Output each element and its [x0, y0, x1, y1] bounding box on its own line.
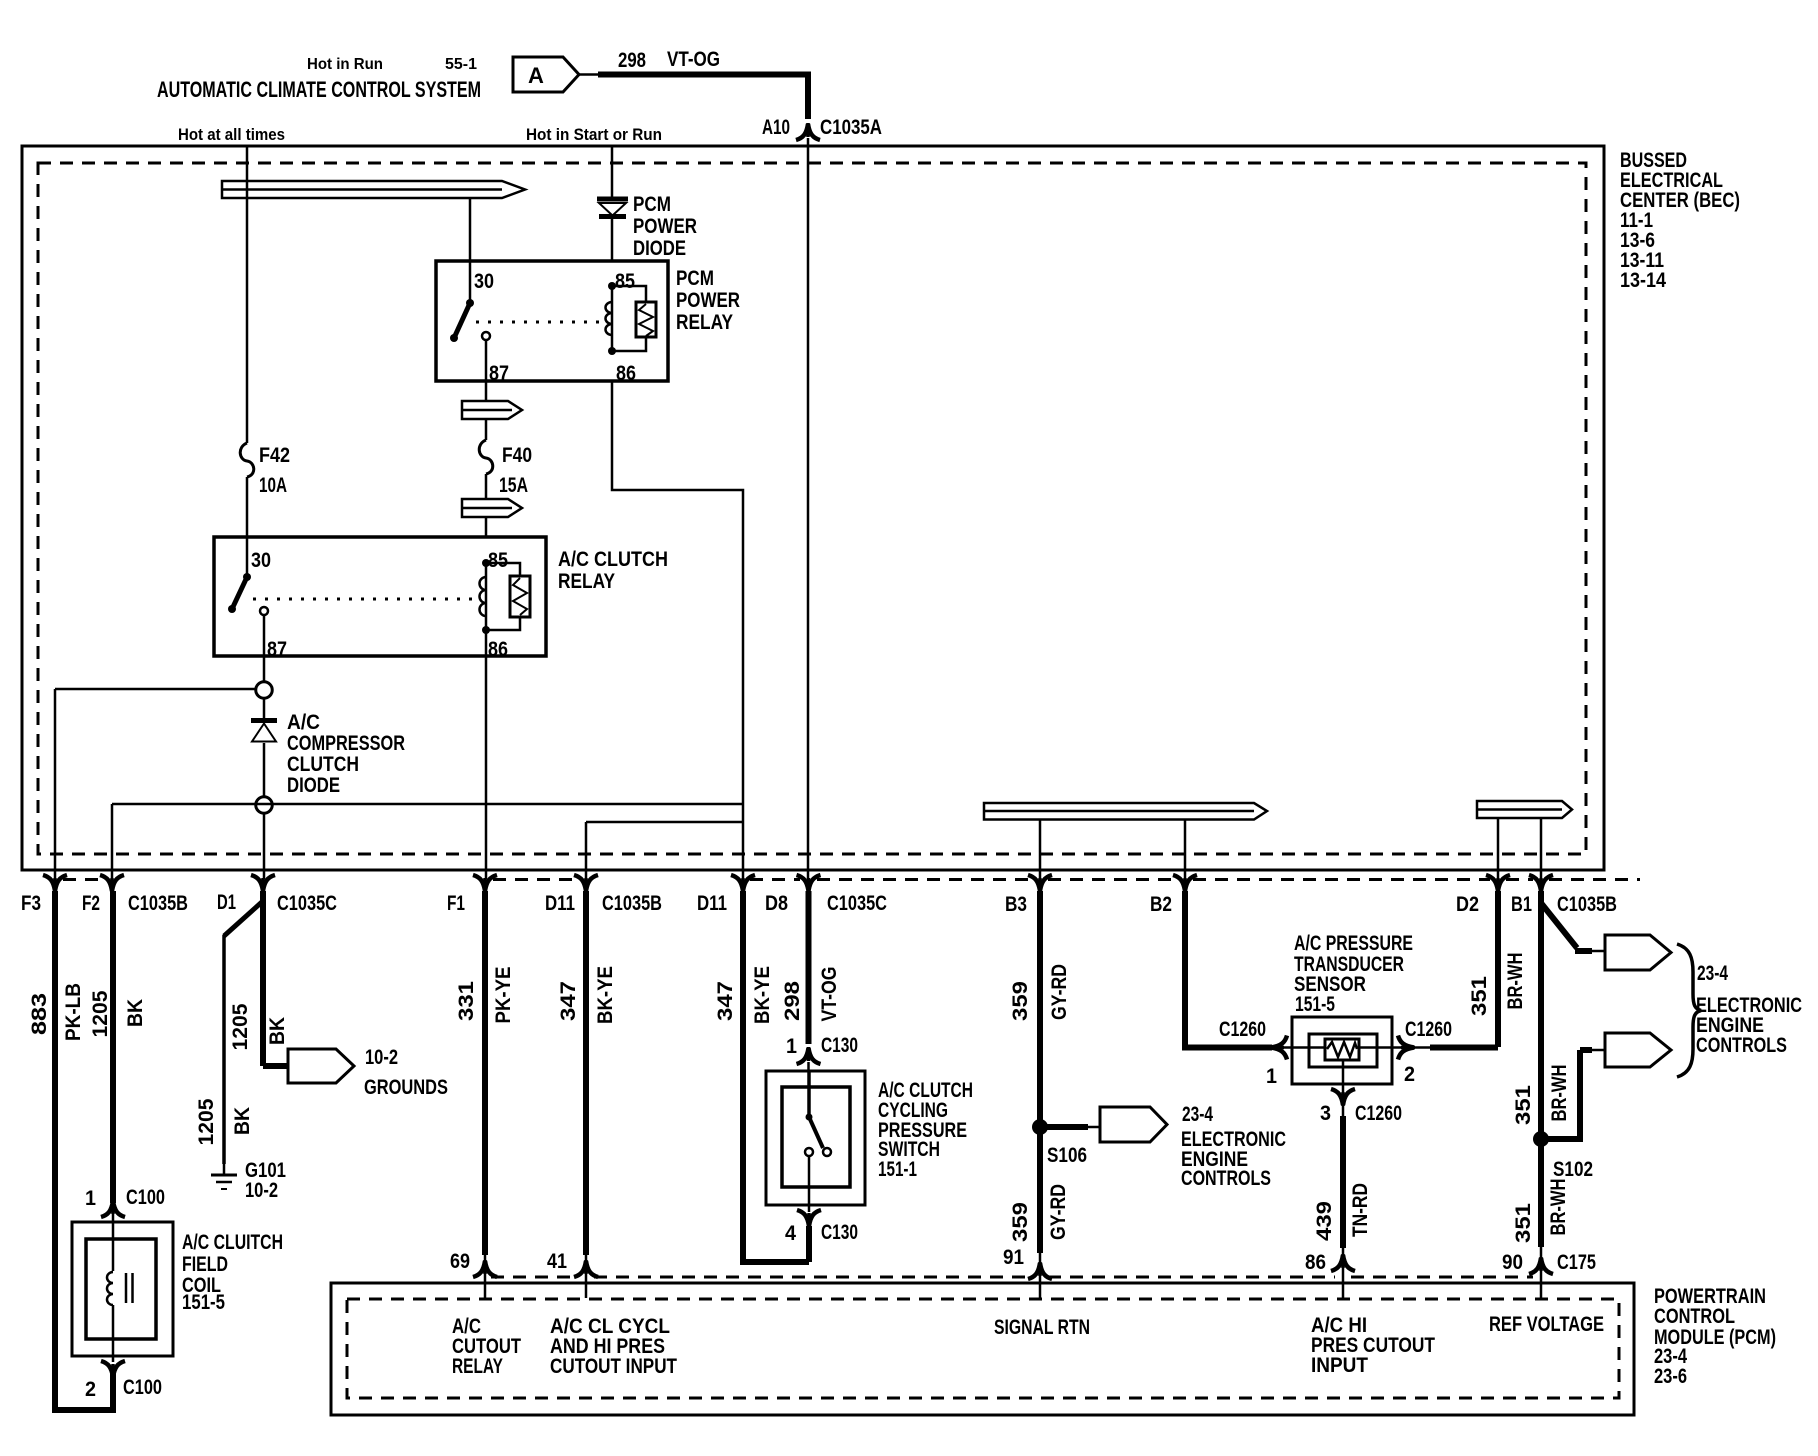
svg-text:87: 87: [489, 362, 509, 385]
svg-text:SIGNAL RTN: SIGNAL RTN: [994, 1316, 1090, 1339]
svg-text:298: 298: [618, 49, 646, 72]
svg-text:23-6: 23-6: [1654, 1365, 1687, 1388]
svg-text:C175: C175: [1557, 1251, 1596, 1274]
svg-text:1205: 1205: [89, 990, 112, 1037]
svg-text:439: 439: [1313, 1201, 1336, 1241]
svg-text:D1: D1: [217, 891, 236, 914]
svg-text:3: 3: [1320, 1102, 1331, 1125]
svg-text:347: 347: [714, 981, 737, 1021]
svg-text:BR-WH: BR-WH: [1504, 953, 1527, 1010]
svg-text:POWER: POWER: [676, 289, 740, 312]
svg-text:C100: C100: [126, 1186, 165, 1209]
svg-text:30: 30: [474, 270, 494, 293]
svg-text:A: A: [528, 63, 544, 88]
svg-text:151-5: 151-5: [182, 1291, 225, 1314]
svg-text:D8: D8: [765, 892, 788, 915]
svg-text:FIELD: FIELD: [182, 1253, 228, 1276]
svg-text:91: 91: [1003, 1246, 1024, 1269]
svg-text:2: 2: [1404, 1063, 1415, 1086]
svg-text:87: 87: [267, 638, 287, 661]
svg-text:359: 359: [1009, 1202, 1032, 1242]
svg-text:1: 1: [1266, 1065, 1277, 1088]
svg-text:10A: 10A: [259, 474, 287, 497]
svg-text:69: 69: [450, 1250, 470, 1273]
svg-text:BK-YE: BK-YE: [751, 966, 774, 1024]
svg-text:298: 298: [781, 981, 804, 1021]
svg-text:F1: F1: [447, 892, 465, 915]
svg-text:GY-RD: GY-RD: [1047, 1184, 1070, 1240]
svg-text:B3: B3: [1005, 893, 1027, 916]
svg-text:C1260: C1260: [1355, 1102, 1402, 1125]
svg-text:55-1: 55-1: [445, 56, 477, 73]
svg-text:30: 30: [251, 549, 271, 572]
svg-text:C1035B: C1035B: [602, 892, 662, 915]
svg-text:359: 359: [1009, 981, 1032, 1021]
svg-text:C1035B: C1035B: [1557, 893, 1617, 916]
svg-text:PK-YE: PK-YE: [492, 967, 515, 1024]
svg-text:C1035C: C1035C: [277, 892, 337, 915]
svg-text:BK: BK: [124, 999, 147, 1027]
svg-text:D2: D2: [1456, 893, 1479, 916]
svg-text:RELAY: RELAY: [558, 570, 615, 593]
svg-text:A/C CLUTCH: A/C CLUTCH: [558, 548, 668, 571]
svg-text:VT-OG: VT-OG: [667, 48, 720, 71]
svg-text:C1035A: C1035A: [820, 116, 882, 139]
svg-text:CONTROLS: CONTROLS: [1181, 1167, 1271, 1190]
svg-text:REF VOLTAGE: REF VOLTAGE: [1489, 1313, 1604, 1336]
svg-text:F3: F3: [21, 892, 41, 915]
svg-text:RELAY: RELAY: [676, 311, 733, 334]
svg-text:15A: 15A: [499, 474, 528, 497]
svg-text:VT-OG: VT-OG: [818, 967, 841, 1022]
svg-text:POWER: POWER: [633, 215, 697, 238]
svg-text:1205: 1205: [195, 1098, 218, 1145]
svg-text:883: 883: [28, 993, 51, 1035]
svg-text:CLUTCH: CLUTCH: [287, 753, 359, 776]
svg-text:GROUNDS: GROUNDS: [364, 1076, 448, 1099]
svg-text:C100: C100: [123, 1376, 162, 1399]
svg-text:41: 41: [547, 1250, 567, 1273]
svg-text:BK-YE: BK-YE: [594, 966, 617, 1024]
svg-text:151-1: 151-1: [878, 1158, 917, 1181]
svg-text:A/C CLUITCH: A/C CLUITCH: [182, 1231, 283, 1254]
svg-text:F40: F40: [502, 444, 532, 467]
svg-text:151-5: 151-5: [1295, 993, 1335, 1016]
svg-text:347: 347: [557, 981, 580, 1021]
svg-text:INPUT: INPUT: [1311, 1354, 1368, 1377]
svg-text:Hot in Start or Run: Hot in Start or Run: [526, 125, 662, 144]
svg-text:S106: S106: [1047, 1144, 1087, 1167]
svg-text:86: 86: [1305, 1251, 1326, 1274]
svg-text:331: 331: [455, 981, 478, 1021]
svg-text:351: 351: [1512, 1085, 1535, 1125]
svg-text:86: 86: [616, 362, 636, 385]
svg-text:1205: 1205: [229, 1003, 252, 1050]
svg-text:1: 1: [85, 1187, 96, 1210]
svg-text:C130: C130: [821, 1034, 858, 1057]
svg-text:10-2: 10-2: [245, 1179, 278, 1202]
svg-text:DIODE: DIODE: [287, 774, 340, 797]
svg-text:DIODE: DIODE: [633, 237, 686, 260]
svg-text:B1: B1: [1511, 893, 1532, 916]
svg-text:C1260: C1260: [1219, 1018, 1266, 1041]
svg-text:A/C PRESSURE: A/C PRESSURE: [1294, 932, 1413, 955]
svg-text:A10: A10: [762, 116, 790, 139]
svg-text:10-2: 10-2: [365, 1046, 398, 1069]
svg-text:F42: F42: [259, 444, 290, 467]
svg-text:D11: D11: [545, 892, 575, 915]
svg-text:BK: BK: [266, 1017, 289, 1045]
svg-text:90: 90: [1502, 1251, 1523, 1274]
svg-text:BK: BK: [231, 1107, 254, 1135]
svg-text:13-14: 13-14: [1620, 269, 1666, 292]
svg-text:PCM: PCM: [676, 267, 714, 290]
svg-text:S102: S102: [1553, 1158, 1593, 1181]
svg-text:BR-WH: BR-WH: [1548, 1065, 1571, 1122]
svg-text:CONTROL: CONTROL: [1654, 1305, 1735, 1328]
svg-text:C1260: C1260: [1405, 1018, 1452, 1041]
svg-text:86: 86: [488, 638, 508, 661]
svg-text:PK-LB: PK-LB: [62, 983, 85, 1041]
svg-text:351: 351: [1512, 1203, 1535, 1243]
svg-text:23-4: 23-4: [1182, 1103, 1213, 1126]
svg-text:COMPRESSOR: COMPRESSOR: [287, 732, 405, 755]
svg-text:85: 85: [488, 549, 508, 572]
svg-text:1: 1: [786, 1035, 797, 1058]
svg-text:RELAY: RELAY: [452, 1355, 503, 1378]
svg-text:B2: B2: [1150, 893, 1172, 916]
svg-text:PCM: PCM: [633, 193, 671, 216]
svg-text:D11: D11: [697, 892, 727, 915]
svg-text:TN-RD: TN-RD: [1349, 1183, 1372, 1237]
svg-text:A/C: A/C: [287, 711, 320, 734]
svg-text:CUTOUT INPUT: CUTOUT INPUT: [550, 1355, 677, 1378]
svg-text:C1035B: C1035B: [128, 892, 188, 915]
svg-text:85: 85: [615, 270, 635, 293]
svg-text:AUTOMATIC CLIMATE CONTROL SYST: AUTOMATIC CLIMATE CONTROL SYSTEM: [157, 77, 481, 102]
svg-text:BR-WH: BR-WH: [1547, 1179, 1570, 1236]
svg-text:CONTROLS: CONTROLS: [1696, 1034, 1787, 1057]
svg-text:351: 351: [1468, 976, 1491, 1016]
svg-text:F2: F2: [82, 892, 100, 915]
svg-text:C1035C: C1035C: [827, 892, 887, 915]
svg-text:23-4: 23-4: [1697, 962, 1728, 985]
svg-text:4: 4: [785, 1222, 796, 1245]
svg-text:Hot at all times: Hot at all times: [178, 125, 285, 144]
svg-text:GY-RD: GY-RD: [1048, 964, 1071, 1020]
svg-text:Hot in Run: Hot in Run: [307, 56, 383, 73]
svg-text:2: 2: [85, 1378, 96, 1401]
svg-text:C130: C130: [821, 1221, 858, 1244]
